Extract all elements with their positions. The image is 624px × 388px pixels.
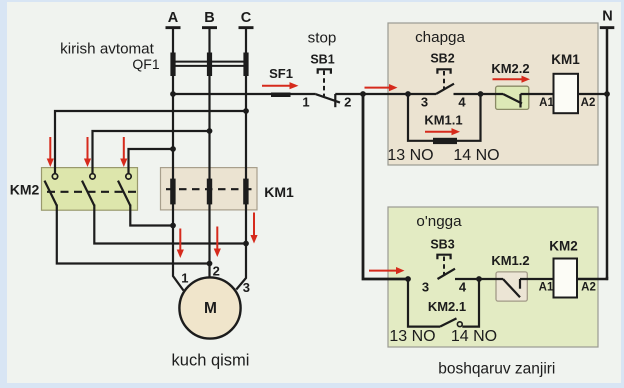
node motor line3 join: [243, 241, 249, 247]
svg-text:SF1: SF1: [269, 66, 293, 81]
KM2 power contact 3: [118, 174, 131, 206]
contact SB3 lever: [438, 269, 456, 279]
pushbutton SB1 actuator: [323, 71, 325, 97]
wire N vertical: [577, 29, 608, 279]
wire A tap to KM2 contact 3: [129, 149, 174, 174]
svg-text:kuch qismi: kuch qismi: [172, 352, 250, 370]
branch KM1.1 holding: [408, 94, 481, 141]
contact SB2 lever: [436, 84, 454, 94]
contactor KM2 power box: [42, 168, 138, 211]
svg-text:KM1: KM1: [264, 184, 294, 200]
contact KM1.1 closed bar: [433, 138, 457, 144]
breaker QF1 pole A: [170, 53, 175, 77]
wire SB3 to KM1.2: [455, 278, 503, 280]
arrow KM2.2: [493, 78, 522, 80]
svg-text:B: B: [204, 10, 214, 26]
svg-text:o'ngga: o'ngga: [416, 213, 462, 230]
arrow KM1.1: [425, 131, 452, 133]
svg-text:A2: A2: [581, 282, 596, 294]
arrow KM2 input 1: [49, 137, 51, 159]
coil KM2: [554, 259, 578, 298]
contact KM2.1 fixed circle: [457, 322, 462, 327]
node C tap: [243, 108, 249, 114]
node A tap: [170, 146, 176, 152]
node chapga 4: [478, 91, 484, 97]
KM2 linkage dashed: [47, 191, 136, 193]
contact KM2.2 NC closed: [503, 94, 522, 104]
svg-text:A: A: [168, 10, 179, 26]
node motor line1 join: [170, 223, 176, 229]
wire KM2 contact3 out to motor line1: [130, 205, 173, 226]
wire KM2.2 to coil KM1: [521, 93, 554, 95]
contact KM2.2 symbol box: [496, 86, 529, 109]
wire coil KM1 to N: [578, 93, 607, 95]
fuse SF1: [271, 93, 291, 98]
svg-text:C: C: [241, 10, 252, 26]
svg-text:SB2: SB2: [430, 52, 454, 66]
wire KM1.2 to coil KM2: [520, 278, 554, 280]
KM1 power pole 3: [243, 179, 248, 205]
arrow KM2 input 3: [123, 137, 125, 159]
svg-text:4: 4: [458, 95, 466, 110]
svg-text:KM1: KM1: [551, 52, 580, 67]
breaker QF1 cross lines: [173, 62, 246, 66]
KM1 power pole 1: [170, 179, 175, 205]
pushbutton SB1 contact: [316, 94, 340, 107]
arrow motor line3: [253, 213, 255, 236]
node motor line2 join: [207, 261, 213, 267]
wire B tap to KM2 contact 2: [93, 131, 210, 174]
arrow KM2 input 2: [87, 137, 89, 159]
node chapga N: [604, 91, 610, 97]
wire control feed horizontal: [173, 93, 316, 95]
svg-text:13 NO: 13 NO: [389, 328, 435, 345]
node C terminal: [239, 26, 254, 29]
svg-text:A2: A2: [581, 97, 596, 109]
KM1 linkage dashed: [166, 188, 252, 190]
KM2 power contact 2: [82, 174, 95, 206]
svg-text:SB3: SB3: [430, 238, 454, 252]
contact KM1.2 symbol box: [496, 272, 527, 301]
wire SB1 to chapga: [335, 93, 436, 95]
svg-text:1: 1: [302, 95, 309, 110]
node QF1 output on A: [170, 91, 176, 97]
node N terminal: [600, 26, 615, 29]
node B tap: [207, 128, 213, 134]
breaker QF1 pole C: [243, 53, 248, 77]
branch KM2.1: [408, 279, 440, 327]
svg-text:3: 3: [422, 280, 429, 295]
svg-text:KM2.2: KM2.2: [491, 61, 529, 76]
svg-text:QF1: QF1: [132, 56, 159, 72]
svg-text:4: 4: [459, 280, 467, 295]
pushbutton SB3 actuator: [443, 257, 445, 275]
node o'ngga 3: [405, 276, 411, 282]
svg-text:14 NO: 14 NO: [453, 147, 499, 164]
svg-text:KM1.1: KM1.1: [424, 113, 462, 128]
node A terminal: [166, 26, 181, 29]
motor M1: [179, 277, 240, 338]
pushbutton SB2 actuator: [443, 71, 445, 90]
contactor KM1 power box: [161, 168, 258, 210]
contact KM1.2 NC open: [503, 279, 520, 297]
wire KM2 contact1 out to motor line2: [57, 205, 210, 264]
wire phase B vertical: [208, 29, 210, 278]
arrow into o'ngga: [369, 270, 396, 272]
svg-text:3: 3: [421, 95, 428, 110]
wire C tap to KM2 contact 1: [55, 111, 246, 174]
svg-text:N: N: [602, 9, 612, 25]
arrow SF1: [262, 85, 290, 87]
node chapga 3: [405, 91, 411, 97]
node B terminal: [202, 26, 217, 29]
svg-text:1: 1: [181, 271, 188, 286]
svg-text:KM2: KM2: [549, 239, 578, 254]
chapga main wire: [408, 84, 607, 141]
svg-text:KM2: KM2: [10, 182, 40, 198]
coil KM1: [554, 74, 579, 113]
wire SB2 to KM2.2: [454, 93, 504, 95]
svg-text:KM2.1: KM2.1: [428, 299, 466, 314]
svg-text:SB1: SB1: [310, 53, 334, 67]
svg-text:3: 3: [243, 280, 250, 295]
arrow into chapga: [365, 87, 390, 89]
contact KM2.1 lever: [440, 318, 457, 326]
svg-text:A1: A1: [539, 282, 554, 294]
wire phase A vertical: [173, 29, 184, 291]
arrow motor line1: [179, 229, 181, 250]
wire feed drop to o'ngga: [363, 94, 408, 279]
svg-text:13 NO: 13 NO: [387, 147, 433, 164]
svg-text:stop: stop: [308, 30, 337, 47]
o'ngga control box: [388, 207, 598, 347]
svg-text:chapga: chapga: [415, 29, 465, 46]
node after SB1: [360, 91, 366, 97]
wire KM2 contact2 out to motor line3: [94, 205, 246, 244]
arrow motor line2: [216, 227, 218, 249]
svg-text:M: M: [204, 300, 217, 317]
svg-text:boshqaruv zanjiri: boshqaruv zanjiri: [438, 361, 555, 378]
red current arrows: [47, 76, 530, 275]
node o'ngga 4: [476, 276, 482, 282]
svg-text:14 NO: 14 NO: [451, 328, 497, 345]
svg-text:A1: A1: [539, 97, 554, 109]
chapga control box: [388, 23, 598, 165]
KM2 power contact 1: [45, 174, 58, 206]
wire phase C vertical: [236, 29, 246, 290]
breaker QF1 pole B: [207, 53, 212, 77]
svg-text:2: 2: [344, 95, 351, 110]
svg-text:KM1.2: KM1.2: [491, 253, 529, 268]
o'ngga main wire: [408, 269, 554, 327]
KM1 power pole 2: [207, 179, 212, 205]
svg-text:2: 2: [213, 264, 220, 279]
